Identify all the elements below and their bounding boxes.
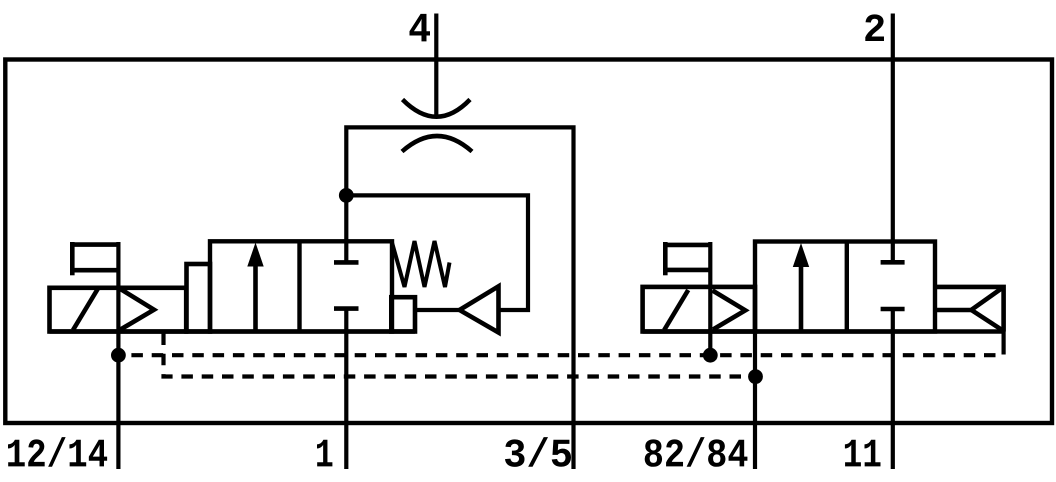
- solenoid S2 box: [643, 287, 755, 332]
- node C junction dot: [703, 348, 718, 363]
- wire: port 12/14 line: [116, 242, 120, 469]
- wire: pilot branch from node A to triangle: [346, 195, 528, 310]
- manual override M1 top bar: [72, 242, 118, 247]
- valve V2 flow arrow head: [793, 243, 809, 267]
- manual override M2 bottom bar: [665, 268, 710, 273]
- pilot line 1 dashed: [118, 343, 1003, 355]
- wire: solenoid S2 pilot stem: [708, 242, 712, 355]
- wire: port 11 line: [891, 309, 895, 469]
- pilot box V1: [391, 297, 415, 331]
- manual override M2 top bar: [665, 243, 710, 248]
- valve V2 seat bottom bar: [881, 307, 905, 312]
- bottom rail V2: [643, 329, 1004, 333]
- wire: throttle frame to port 3/5: [346, 127, 573, 469]
- wire: port 82/84 line: [753, 332, 757, 470]
- valve V1 body: [210, 241, 392, 331]
- bottom rail V1: [50, 329, 416, 333]
- manual override M2 tick: [663, 242, 668, 275]
- pilot triangle V2 (points left): [971, 287, 1003, 331]
- spring V1: [392, 241, 450, 287]
- port 2 label: [865, 14, 884, 41]
- wire: port 1 line: [344, 309, 348, 469]
- valve V1 flow arrow head: [247, 243, 263, 267]
- manual override M1 tick: [70, 242, 75, 275]
- pilot line 2 dashed: [164, 334, 756, 377]
- valve V2 body: [755, 242, 935, 332]
- pilot triangle right (points left): [460, 286, 499, 332]
- valve V1 seat top bar: [334, 260, 359, 265]
- wire: port 2 line: [891, 14, 895, 263]
- valve V2 seat top bar: [881, 260, 905, 265]
- solenoid S2 chevron: [713, 291, 746, 330]
- interface block V1: [187, 264, 211, 332]
- wire: triangle to pilot box: [415, 308, 460, 312]
- node B junction dot: [111, 348, 126, 363]
- port 3/5 label: [505, 437, 571, 467]
- solenoid S1 diagonal: [73, 289, 98, 331]
- wire: pilot box V2 stub: [1001, 332, 1005, 344]
- manual override M1 bottom bar: [72, 268, 118, 273]
- port 11 label: [845, 440, 881, 467]
- port 82/84 label: [645, 437, 748, 467]
- valve V1 divider: [297, 241, 301, 331]
- solenoid S1 chevron: [121, 289, 155, 330]
- solenoid S2 diagonal: [664, 290, 688, 330]
- port 4 label: [409, 14, 430, 42]
- node D junction dot: [748, 369, 763, 384]
- pilot box V2: [936, 287, 1004, 332]
- valve V1 flow arrow stem: [253, 262, 258, 332]
- throttle upper arc: [403, 100, 471, 117]
- valve V2 divider: [845, 242, 849, 332]
- valve V1 seat top stem: [344, 195, 348, 262]
- solenoid S1 box: [50, 288, 187, 332]
- port 1 label: [317, 440, 332, 467]
- node A junction dot: [339, 188, 354, 203]
- throttle lower arc: [402, 136, 472, 152]
- enclosure border: [5, 60, 1052, 424]
- port 4 line: [434, 14, 438, 116]
- valve V2 flow arrow stem: [799, 262, 804, 332]
- port 12/14 label: [8, 437, 107, 467]
- valve V1 seat bottom bar: [334, 306, 359, 311]
